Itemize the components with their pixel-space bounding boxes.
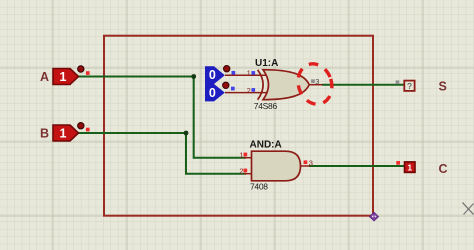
AND:A pin 1 stub [244,157,252,159]
AND:A pin 2 stub [244,173,252,175]
svg-text:0: 0 [209,68,216,82]
svg-text:C: C [439,162,448,176]
XOR U1:A pin 1 stub [225,74,267,76]
svg-text:1: 1 [60,70,67,84]
cursor mark [463,203,474,215]
XOR U1:A pin 2 stub [225,92,267,94]
dashed highlight ellipse around XOR output [293,59,337,108]
svg-text:1: 1 [239,150,243,159]
svg-text:3: 3 [309,158,313,167]
svg-text:3: 3 [315,77,319,86]
marker circle at input B [78,123,84,129]
marker circle at XOR pin 2 [223,82,229,88]
logic probe C (value 1) [405,162,416,173]
svg-text:74S86: 74S86 [254,101,278,111]
wire A horizontal [79,76,194,78]
logic-1 square at AND pin 1 [244,153,248,157]
svg-text:1: 1 [60,127,67,141]
svg-text:B: B [40,127,49,141]
wire S from XOR output to probe [322,84,404,86]
marker circle at XOR pin 1 [224,66,230,72]
logic-0 square on XOR pin 2 wire [231,87,235,91]
logic-1 square at input A [86,71,90,75]
floating square at XOR pin 3 [311,79,315,83]
logic-0 square at XOR pin 2 [252,88,256,92]
svg-text:1: 1 [407,163,412,173]
logic-0 square at XOR pin 1 [252,71,256,75]
logic state input B (value 1) [53,125,79,141]
logic-0 square on XOR pin 1 wire [232,71,236,75]
floating square at probe S [396,80,400,84]
svg-text:?: ? [407,81,412,91]
logic probe S (unknown ?) [404,81,414,92]
node A junction [191,74,196,79]
logic-1 square at input B [86,128,90,132]
svg-text:A: A [40,70,49,84]
AND:A pin 3 output stub [300,165,310,167]
logic-1 square at AND pin 2 [244,169,248,173]
wire C from AND output to probe [309,165,405,167]
svg-text:2: 2 [239,166,243,175]
wire B vertical to AND pin2 [186,133,246,174]
logic-1 square near probe C [396,161,400,165]
wire B horizontal [79,132,187,134]
svg-text:S: S [439,79,447,93]
and gate AND:A body [252,151,301,181]
logic-1 square at AND pin 3 [304,160,308,164]
wire A vertical to AND pin1 [194,77,246,158]
marker circle at input A [78,66,84,72]
node B junction [184,131,189,136]
svg-text:1: 1 [247,69,251,78]
logic state indicator 0 at XOR pin 1 [205,66,225,84]
logic state indicator 0 at XOR pin 2 [205,84,225,101]
svg-text:2: 2 [247,86,251,95]
svg-text:0: 0 [209,86,216,100]
svg-text:AND:A: AND:A [250,139,282,150]
svg-text:U1:A: U1:A [255,58,278,69]
xor gate U1:A body [258,70,310,100]
XOR U1:A pin 3 output stub [309,84,323,86]
corner handle diamond [369,212,378,221]
svg-text:7408: 7408 [250,182,268,192]
border frame rectangle [104,36,373,216]
logic state input A (value 1) [53,69,79,85]
